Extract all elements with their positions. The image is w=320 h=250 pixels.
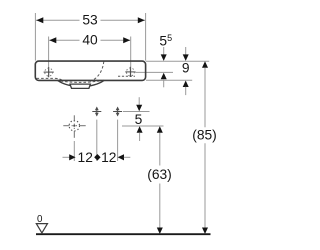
drain trap xyxy=(70,84,90,88)
dim 5 lower arrow xyxy=(137,126,143,133)
drain symbol centerline horizontal xyxy=(63,125,85,127)
dim 5 upper arrow xyxy=(138,97,140,105)
bottom edge extension line xyxy=(146,79,192,81)
washbasin outline xyxy=(35,61,145,80)
witness line supply right xyxy=(117,120,119,161)
witness line supply left xyxy=(96,120,98,161)
tap hole cross right xyxy=(125,67,135,77)
tap hole cross left xyxy=(44,67,54,77)
bowl underside curve xyxy=(58,80,105,86)
tap level extension line xyxy=(136,71,174,73)
hidden rim dashes left xyxy=(37,78,63,80)
dimension line 40 xyxy=(49,39,79,41)
dim 5.5 lower arrow xyxy=(161,73,167,80)
dim 63 top arrow xyxy=(157,126,163,133)
drain symbol centerline vertical xyxy=(73,115,75,138)
witness line left of dim 40 xyxy=(48,37,50,78)
dim 85 line xyxy=(204,68,206,127)
svg-text:12: 12 xyxy=(101,150,116,165)
dim 9 lower arrow xyxy=(183,81,189,88)
dimension line 53 xyxy=(36,19,80,21)
witness line drain xyxy=(73,141,75,161)
datum triangle xyxy=(36,224,47,233)
lower reference line of dim 5 xyxy=(122,125,164,127)
drain symbol circle xyxy=(69,121,79,131)
arrow right of dim 53 xyxy=(138,17,145,23)
witness line right of dim 53 xyxy=(145,13,147,61)
bowl inner bottom dashed arc xyxy=(61,81,100,82)
hidden rim curve right xyxy=(89,62,104,82)
svg-text:(63): (63) xyxy=(147,167,172,182)
witness line left of dim 53 xyxy=(34,13,36,61)
svg-text:12: 12 xyxy=(78,150,93,165)
svg-text:5: 5 xyxy=(135,112,143,127)
hidden shelf dashes right xyxy=(118,75,135,77)
svg-text:40: 40 xyxy=(82,32,98,47)
svg-text:9: 9 xyxy=(182,60,190,75)
dim 12-12 right arrow xyxy=(118,154,124,160)
arrow left of dim 53 xyxy=(36,17,43,23)
supply symbol right xyxy=(113,107,122,117)
dim 9 upper arrow xyxy=(185,47,187,55)
dim 63 line xyxy=(159,133,161,166)
svg-text:(85): (85) xyxy=(192,127,217,142)
arrow left of dim 40 xyxy=(49,37,56,43)
dim 5.5 upper arrow xyxy=(163,47,165,55)
dim 12-12 left arrow xyxy=(63,156,70,158)
svg-text:53: 53 xyxy=(82,13,98,28)
floor line xyxy=(36,233,211,235)
arrow right of dim 40 xyxy=(123,37,130,43)
top edge extension line xyxy=(146,60,209,62)
supply level line to dim 5 xyxy=(123,111,150,113)
diamond separator xyxy=(94,154,100,161)
supply symbol left xyxy=(92,107,101,117)
witness line right of dim 40 xyxy=(130,37,132,77)
dim 63 bottom arrow xyxy=(157,228,163,235)
dim 85 bottom arrow xyxy=(202,228,208,235)
dim 85 top arrow xyxy=(202,61,208,68)
